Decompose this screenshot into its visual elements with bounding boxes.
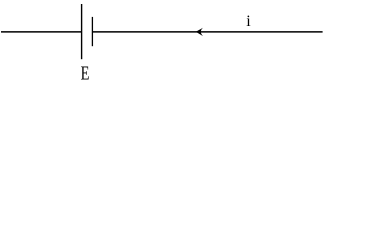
battery E short plate (negative terminal) [91,17,93,46]
wire left segment [1,31,82,33]
current arrow head (points left) [196,28,203,36]
svg-text:i: i [246,13,251,30]
wire right segment [92,31,322,33]
svg-text:E: E [81,63,90,85]
battery E long plate (positive terminal) [81,4,83,59]
